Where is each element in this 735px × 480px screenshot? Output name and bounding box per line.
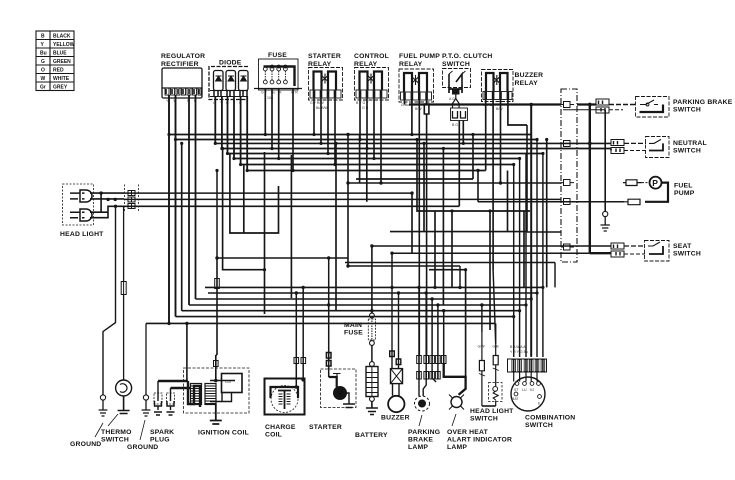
svg-text:BUZZER: BUZZER (381, 415, 410, 422)
svg-text:K2: K2 (530, 388, 534, 392)
seat switch contact (648, 242, 660, 246)
charge coil riser 2 (302, 287, 304, 355)
PTO lower plug box (451, 108, 468, 121)
starter relay rail 1 (314, 72, 322, 91)
svg-text:PLUG: PLUG (150, 437, 170, 444)
junction dot y266 (346, 264, 349, 267)
PTO clutch switch contacts (449, 74, 462, 85)
svg-text:PUMP: PUMP (674, 190, 695, 197)
junction dot x181.7 (180, 142, 183, 145)
svg-text:CHARGE: CHARGE (265, 424, 296, 431)
main vertical right thick (590, 105, 611, 254)
svg-text:B G: B G (452, 123, 458, 127)
svg-text:BATTERY: BATTERY (355, 432, 388, 439)
svg-text:RELAY: RELAY (399, 61, 423, 68)
wire staircase riser x524 (523, 211, 525, 287)
neutral switch wires to box (624, 142, 646, 144)
fuel pump relay contact cross (412, 75, 420, 85)
buzzer element box (391, 369, 403, 384)
fuse element 4 (284, 67, 288, 84)
starter dashed box (321, 369, 357, 408)
thermo callout line (108, 414, 118, 426)
svg-text:STARTER: STARTER (309, 424, 342, 431)
fuel return riser (477, 171, 479, 202)
buzzer relay contact cross (493, 75, 500, 85)
headlight switch riser 2 from buzzer pin2 (493, 270, 496, 344)
svg-text:G: G (41, 59, 45, 65)
wire fuse pin1 drop (264, 89, 266, 135)
charge coil core circle (271, 386, 298, 413)
parking lamp risers (419, 287, 444, 355)
main vertical feed to combination switch (530, 105, 532, 357)
legend table row lines (36, 40, 74, 83)
svg-text:PARKING: PARKING (408, 429, 440, 436)
wire regulator pin3 drop to band C corner (188, 95, 190, 305)
headlight switch riser 1 (481, 305, 483, 332)
fuel line horizontal (348, 182, 561, 184)
PTO clutch switch merge connector (449, 85, 462, 93)
wire fuel pump relay pin3 long drop to parking lamp (418, 100, 420, 356)
svg-text:HEAD LIGHT: HEAD LIGHT (60, 231, 104, 238)
ignition coil CDI unit box (222, 374, 243, 393)
starter relay pin strip (310, 90, 341, 98)
combination switch pins (512, 360, 545, 372)
thermo switch ground stem (118, 396, 130, 414)
wire staircase riser x443.4 (442, 149, 444, 306)
battery B1 feed wire (371, 346, 373, 363)
ignition coil winding bars (191, 386, 216, 404)
charge coil T2 body (265, 379, 305, 415)
wire fuel pump relay pin4 with inline connector (424, 100, 429, 356)
ground G1 wire (103, 206, 116, 395)
svg-text:HEAD LIGHT: HEAD LIGHT (470, 408, 514, 415)
fuse box frame (259, 59, 299, 90)
parking brake switch connector pair (596, 99, 609, 113)
svg-text:ST: ST (514, 388, 519, 392)
wire staircase diode4 stub (243, 165, 245, 234)
SECTION: wire mesh (124, 89, 624, 382)
fuel pump relay rail 2 (419, 73, 427, 92)
wire staircase elbow x424 (423, 143, 425, 231)
starter column riser (328, 258, 330, 300)
ground G2 callout line (140, 420, 145, 440)
svg-text:RECTIFIER: RECTIFIER (161, 61, 199, 68)
svg-text:SPARK: SPARK (150, 429, 174, 436)
junction dot control pin4 at fuel line (379, 181, 382, 184)
svg-text:STARTER: STARTER (308, 53, 341, 60)
junction dot x412 (410, 191, 413, 194)
wire staircase riser x507.5 (507, 171, 509, 232)
junction dot headlight bus 2 (114, 198, 117, 201)
fuel return line horizontal (478, 201, 624, 203)
diode block outer frame (209, 67, 248, 100)
charge coil core tee (278, 390, 291, 409)
junction dot ignition at y258 (215, 256, 218, 259)
battery plates (366, 373, 378, 393)
svg-text:BUZZER: BUZZER (515, 72, 544, 79)
svg-text:DIODE: DIODE (219, 60, 242, 67)
band C wire 6 (176, 316, 514, 318)
regulator rectifier pin boxes (165, 89, 201, 96)
horizontal y258 ignition feed (217, 257, 348, 259)
lamp cluster connector pins (417, 356, 446, 380)
svg-text:B/W: B/W (496, 107, 503, 111)
diode 3 symbol (241, 76, 247, 81)
junction dots band A diode row (214, 133, 414, 172)
thermo switch inline connector (121, 282, 126, 295)
seat switch connector pair (611, 243, 624, 257)
svg-text:SWITCH: SWITCH (673, 107, 701, 114)
wire starter relay pin2 drop (320, 98, 322, 143)
svg-text:SWITCH: SWITCH (442, 61, 470, 68)
band A wire 4 neutral return (222, 149, 611, 151)
band C wire 1 (205, 286, 543, 288)
wire regulator pin1 long drop to band C (168, 95, 170, 323)
svg-text:G Y R/W: G Y R/W (310, 101, 324, 105)
over heat alart indicator lamp L2 (451, 397, 462, 408)
svg-text:OVER HEAT: OVER HEAT (447, 429, 489, 436)
band C wire 2 (208, 292, 537, 294)
wire headlight bulb2 feed elbow (90, 193, 124, 218)
wire headlight bulb1 hi to bus (90, 192, 124, 194)
wire diode pin3 drop (227, 97, 229, 154)
band A wire 3 neutral feed (215, 142, 611, 144)
ground G2 symbol (143, 395, 148, 400)
headlight connector 2 (128, 197, 135, 202)
junction dot seat feed riser (370, 244, 373, 247)
SECTION: left headlight (60, 184, 139, 238)
buzzer relay K4 body frame (482, 70, 514, 102)
svg-text:IGNITION COIL: IGNITION COIL (198, 430, 249, 437)
svg-text:Bu B/W: Bu B/W (316, 106, 329, 110)
svg-text:G Y: G Y (261, 91, 268, 95)
band A wire 2 (176, 139, 538, 141)
junction dot headlight switch riser (480, 303, 483, 306)
junction dot ignition column top (215, 169, 218, 172)
head light switch contact circle (493, 387, 498, 392)
svg-text:FUSE: FUSE (344, 330, 363, 337)
neutral switch internal return (649, 143, 663, 150)
svg-text:COMBINATION: COMBINATION (525, 415, 575, 422)
head light switch breaks (479, 368, 499, 376)
svg-text:Gr: Gr (40, 85, 46, 91)
fuel pump relay rail 1 (404, 73, 412, 92)
svg-text:SEAT: SEAT (673, 243, 692, 250)
ignition column inline connector (215, 279, 220, 289)
wire diode pin2 drop (221, 97, 223, 149)
horizontal y262 (345, 262, 555, 264)
control relay pins (360, 91, 381, 98)
thermo switch wire (123, 206, 125, 281)
SECTION: top components (161, 52, 543, 127)
band A wire 6 (234, 158, 520, 160)
starter ground (343, 393, 355, 408)
combination switch connector row (508, 359, 547, 372)
combination switch S7 body circle (511, 377, 545, 411)
buzzer BZ1 wires with connectors (390, 287, 401, 368)
strip connector at seat line (561, 244, 574, 250)
svg-text:SWITCH: SWITCH (525, 422, 553, 429)
strip connector at neutral line (561, 141, 574, 147)
buzzer relay pin strip (483, 92, 512, 100)
svg-text:BRAKE: BRAKE (408, 437, 433, 444)
wire staircase riser x366.8 (366, 140, 368, 202)
svg-text:LAMP: LAMP (408, 444, 428, 451)
svg-text:FUSE: FUSE (268, 52, 287, 59)
junction dot fuel riser top (346, 133, 349, 136)
wire fuse pin4 drop (292, 89, 294, 171)
buzzer relay pins (486, 92, 508, 99)
diode cell 1 (214, 71, 224, 91)
svg-text:BAT: BAT (512, 397, 519, 401)
svg-text:ALART INDICATOR: ALART INDICATOR (447, 437, 512, 444)
wire PTO switch drop (458, 121, 460, 207)
fuel pump inline connector (623, 180, 642, 186)
wire fuel pump relay pin2 drop (411, 100, 413, 135)
headlight connector 3 (128, 204, 135, 209)
starter brush detail (333, 374, 341, 379)
wire buzzer relay pin2 long drop to headlight switch (492, 99, 494, 270)
junction dot main right vertical top (588, 103, 592, 107)
wire y269.7 rail to overheat feed (429, 270, 466, 377)
band A wire 1 (169, 134, 531, 136)
junction dot main right vertical at neutral (588, 142, 592, 146)
wire riser x181.7 to band C (181, 143, 183, 310)
ground G1 symbol (100, 395, 105, 400)
seat feed horizontal (372, 245, 611, 247)
ignition coil HT leads (158, 381, 191, 388)
fuel pump return connector (624, 199, 640, 205)
ignition coil feed connector (214, 361, 219, 367)
main connector strip (561, 89, 577, 262)
seat switch wires to box (624, 245, 645, 247)
wire buzzer relay pin1 drop (485, 99, 487, 171)
svg-text:Bu: Bu (40, 51, 47, 57)
junction dots staircase (221, 133, 548, 289)
starter relay pins (314, 91, 335, 98)
wire staircase riser x291.4 (290, 155, 292, 298)
parking brake lamp L1 wires (419, 364, 426, 397)
starter relay rail 2 (328, 72, 336, 91)
horizontal bus parking brake feed right of strip (577, 103, 596, 105)
wire control relay pin3 drop (373, 98, 375, 159)
strip connector at fuel line (561, 180, 574, 186)
control relay body frame (355, 68, 389, 101)
wire headlight bulb1 lo to bus (90, 198, 124, 200)
battery terminal bottom (370, 397, 375, 402)
wire staircase mid riser x264.5 (264, 152, 266, 314)
charge coil top bar (271, 387, 299, 398)
svg-text:FUEL: FUEL (674, 183, 693, 190)
head light bulb 1 (70, 190, 92, 202)
wire starter relay pin4 drop (334, 98, 336, 165)
head light housing dashed box (63, 184, 94, 225)
svg-text:RELAY: RELAY (308, 61, 332, 68)
svg-text:W R: W R (291, 91, 298, 95)
svg-text:B: B (41, 34, 45, 40)
charge coil lead connectors (294, 358, 306, 364)
head light switch resistor 2 (493, 344, 498, 406)
neutral switch S3 box (646, 137, 670, 158)
wire regulator pin2 long drop to band C (175, 95, 177, 317)
headlight connector 1 (128, 191, 135, 196)
junction dot thermo drop on bus3 (114, 205, 117, 208)
head light switch resistor 1 (479, 332, 484, 406)
regulator rectifier U1 body (162, 68, 202, 98)
control relay contact cross (367, 74, 375, 84)
control relay rail 2 (374, 72, 382, 91)
seat switch S4 box (645, 241, 670, 262)
overheat lamp feed elbow thick (444, 364, 466, 395)
svg-text:YELLOW: YELLOW (53, 42, 75, 48)
svg-text:B A W A A: B A W A A (510, 345, 526, 349)
svg-text:W: W (41, 76, 46, 82)
svg-text:BLACK: BLACK (53, 34, 71, 40)
overheat lamp callout (452, 414, 456, 426)
svg-text:FUEL PUMP: FUEL PUMP (399, 53, 440, 60)
band A wire 5 (228, 153, 543, 155)
right ground symbol (603, 211, 608, 216)
ignition coil winding hatches (191, 384, 202, 405)
legend table column divider (49, 31, 51, 91)
band C wire 4 (189, 304, 526, 306)
wire x412 drop from headlight bus1 (411, 193, 413, 253)
strip connector at parking line (561, 102, 574, 108)
head light switch S6 dashed box (489, 383, 503, 402)
control relay rail 1 (360, 72, 368, 91)
vertical buzzer elbow drop (527, 125, 561, 232)
combination switch wires into circle (514, 372, 537, 382)
parking brake switch contact (640, 100, 658, 105)
svg-text:Y: Y (41, 42, 45, 48)
neutral switch contact (649, 139, 661, 143)
svg-text:THERMO: THERMO (101, 429, 132, 436)
svg-text:P: P (652, 178, 658, 188)
svg-text:REGULATOR: REGULATOR (161, 53, 205, 60)
ignition coil internal wiring (210, 381, 235, 402)
svg-text:COIL: COIL (265, 432, 282, 439)
seat return horizontal (392, 252, 590, 254)
svg-text:SWITCH: SWITCH (470, 416, 498, 423)
wire fuel pump relay pin1 elbow to bus (404, 100, 406, 105)
parking brake switch internal return (640, 105, 664, 113)
svg-text:CONTROL: CONTROL (354, 53, 389, 60)
ignition primary feed drop (186, 323, 188, 381)
junction dots combination risers (512, 138, 544, 318)
combination risers from band A (514, 140, 543, 358)
diode 2 symbol (228, 76, 234, 81)
svg-text:PARKING BRAKE: PARKING BRAKE (673, 99, 733, 106)
wire staircase diode3 elbow (230, 154, 279, 234)
wire fuse pin3 drop (278, 89, 280, 159)
PTO lower plug inner (453, 111, 466, 118)
charge coil winding bars (279, 394, 291, 404)
head light switch leg link (482, 405, 496, 407)
overheat lamp wires (432, 364, 438, 383)
headlight connector column frame (125, 185, 139, 213)
fuel pump return elbow (645, 183, 668, 202)
junction dot buzzer pin3 at fuel line (499, 181, 502, 184)
svg-text:NEUTRAL: NEUTRAL (673, 140, 707, 147)
fuel pump relay pin strip (401, 92, 432, 100)
parking brake switch wire to box (609, 104, 636, 106)
right ground wire from parking line (604, 110, 606, 212)
svg-text:A G: A G (449, 97, 455, 101)
starter M1 wire with connectors (326, 300, 331, 377)
wire staircase riser x435 (434, 211, 436, 287)
ignition column riser (216, 258, 217, 355)
wire x460 drop from y266 (459, 266, 461, 287)
svg-text:BLUE: BLUE (53, 51, 67, 57)
ignition coil T1 dashed box (184, 368, 250, 413)
wire staircase riser x490 (489, 211, 491, 330)
buzzer relay rail 1 (486, 73, 494, 92)
svg-text:10A: 10A (267, 96, 274, 100)
svg-text:O: O (41, 68, 45, 74)
svg-text:P.T.O. CLUTCH: P.T.O. CLUTCH (442, 53, 492, 60)
SECTION: bottom components (70, 205, 575, 451)
parking brake switch S2 box (636, 97, 670, 118)
ignition coil feed from top (215, 355, 217, 380)
junction dot starter column (327, 256, 330, 259)
svg-text:M: M (336, 390, 343, 399)
junction dot comb feed at bus (529, 103, 533, 107)
starter relay contact cross (321, 74, 329, 84)
junction dot bulb feed (99, 191, 102, 194)
head light switch zigzag (493, 391, 498, 400)
fuse bottom rail (254, 88, 302, 90)
fuel line left riser (347, 135, 349, 267)
junction dots band C left (167, 286, 483, 330)
wire staircase riser x546.7 (546, 140, 548, 288)
charge coil junction dots (301, 378, 305, 382)
starter feed elbow (329, 377, 337, 387)
svg-text:LU: LU (522, 388, 527, 392)
thermo switch S5 body (116, 380, 132, 396)
wire control relay pin1 drop (359, 98, 361, 140)
wire PTO switch second leg (462, 121, 464, 144)
buzzer relay rail 2 (500, 73, 508, 92)
wire diode pin6 drop (246, 97, 248, 171)
fuse bus junction dots (270, 65, 274, 69)
starter relay body frame (309, 68, 343, 101)
band C wire 5 (182, 310, 520, 312)
battery terminal top (370, 362, 375, 367)
svg-text:GROUND: GROUND (127, 444, 158, 451)
horizontal y266 short (348, 265, 460, 267)
ignition column upper segment (216, 171, 218, 259)
headlight bus 3 east run (124, 205, 459, 207)
fuel pump relay pins (405, 93, 427, 100)
wire staircase elbow x417 to y211 rail (417, 140, 530, 212)
wire diode pin1 drop (214, 97, 216, 144)
band A wire 8 (247, 170, 486, 172)
headlight bus 1 east run (124, 192, 412, 194)
junction dot fuel return riser (476, 169, 479, 172)
horizontal bus parking brake feed (409, 103, 561, 105)
ignition coil ground stem (210, 404, 222, 424)
wire staircase riser x336 (335, 143, 337, 310)
combination switch terminals (515, 382, 519, 386)
svg-text:SWITCH: SWITCH (673, 251, 701, 258)
legend color-code table frame (36, 31, 74, 91)
seat return riser buzzer column (391, 253, 393, 287)
strip connector at fuel return line (561, 199, 574, 205)
wire staircase riser x452 (451, 211, 453, 287)
junction dot PTO second leg (462, 142, 465, 145)
junction dot seat return riser (390, 252, 393, 255)
SECTION: right components (561, 89, 733, 262)
